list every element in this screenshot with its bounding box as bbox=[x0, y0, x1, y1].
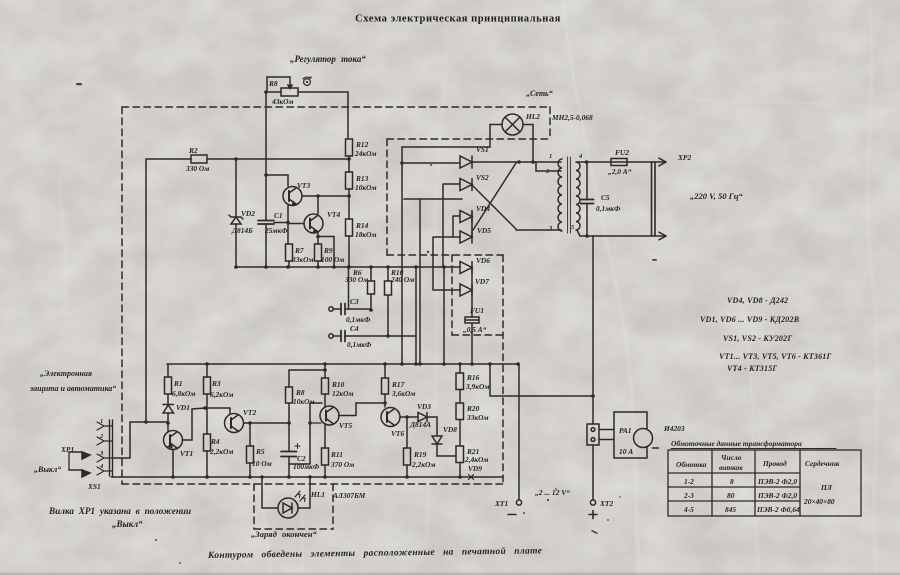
capacitor C2 electrolytic bbox=[281, 423, 300, 477]
wire: VD2 branch x=236 bbox=[235, 159, 237, 267]
knob rotation symbol bbox=[303, 76, 312, 85]
svg-text:4-5: 4-5 bbox=[683, 505, 694, 514]
diode VD6 bbox=[460, 262, 472, 274]
plug XP1 arrows bbox=[69, 452, 90, 477]
svg-text:2-3: 2-3 bbox=[683, 491, 694, 500]
svg-text:2,4кОм: 2,4кОм bbox=[464, 455, 488, 464]
svg-text:R4: R4 bbox=[210, 437, 220, 446]
diode VD1 bbox=[163, 405, 174, 423]
connector XS1 socket bbox=[97, 420, 113, 476]
svg-text:„Выкл“: „Выкл“ bbox=[112, 519, 143, 529]
svg-text:2,2кОм: 2,2кОм bbox=[209, 447, 233, 456]
notes block bbox=[700, 296, 832, 373]
svg-text:100 Ом: 100 Ом bbox=[321, 255, 344, 264]
svg-text:18кОм: 18кОм bbox=[355, 230, 377, 239]
svg-text:ПЭВ-2 Ф2,0: ПЭВ-2 Ф2,0 bbox=[757, 491, 797, 500]
svg-text:VD4, VD8 - Д242: VD4, VD8 - Д242 bbox=[727, 296, 788, 305]
resistor R7 bbox=[286, 244, 293, 267]
svg-text:FU2: FU2 bbox=[615, 148, 629, 157]
potentiometer R8 (current regulator) bbox=[266, 77, 348, 96]
svg-text:FU1: FU1 bbox=[470, 306, 484, 315]
svg-text:10кОм: 10кОм bbox=[355, 183, 377, 192]
svg-text:VD1: VD1 bbox=[176, 403, 190, 412]
svg-text:R2: R2 bbox=[188, 146, 198, 155]
LED HL1 bbox=[262, 477, 310, 518]
svg-text:VD1, VD6 ... VD9 - КД202В: VD1, VD6 ... VD9 - КД202В bbox=[700, 315, 800, 324]
svg-text:R16: R16 bbox=[466, 373, 480, 382]
svg-text:R5: R5 bbox=[255, 447, 265, 456]
svg-text:80: 80 bbox=[727, 491, 735, 500]
resistor R11 bbox=[322, 448, 329, 477]
svg-text:R17: R17 bbox=[391, 380, 405, 389]
dashed enclosure: electronic protection block bbox=[122, 107, 550, 484]
svg-text:VT4: VT4 bbox=[327, 210, 340, 219]
wire: regulator left drop x=266 bbox=[265, 92, 267, 175]
wire: R8 right drop to chain bbox=[347, 92, 349, 139]
terminal XT1 bbox=[516, 500, 521, 505]
transistor VT5 bbox=[310, 403, 385, 448]
svg-text:R8: R8 bbox=[268, 79, 278, 88]
mark x on rail bbox=[469, 475, 474, 480]
svg-text:„Электронная: „Электронная bbox=[40, 369, 92, 378]
paper specks bbox=[76, 83, 657, 564]
svg-text:25мкФ: 25мкФ bbox=[264, 226, 288, 235]
svg-text:VT6: VT6 bbox=[391, 429, 404, 438]
svg-text:Схема электрическая принципиал: Схема электрическая принципиальная bbox=[355, 14, 561, 25]
svg-text:0,1мкФ: 0,1мкФ bbox=[346, 315, 371, 324]
ammeter PA1 bbox=[587, 412, 659, 458]
bridge right side: top rail to transformer pin1 bbox=[472, 161, 561, 163]
svg-text:ХТ2: ХТ2 bbox=[599, 499, 613, 508]
svg-text:370 Ом: 370 Ом bbox=[330, 460, 354, 469]
svg-text:R19: R19 bbox=[413, 450, 427, 459]
svg-text:1-2: 1-2 bbox=[684, 477, 694, 486]
resistor R1 bbox=[165, 364, 172, 404]
diode VD7 bbox=[460, 284, 472, 296]
svg-text:330 Ом: 330 Ом bbox=[185, 164, 209, 173]
resistor chain R12 R13 R14 bbox=[346, 139, 353, 309]
svg-text:VT1: VT1 bbox=[180, 449, 193, 458]
svg-text:240 Ом: 240 Ом bbox=[390, 275, 414, 284]
wire: left rail x=146 bbox=[145, 159, 147, 422]
resistor R8 lower bbox=[286, 370, 326, 423]
svg-text:Д814А: Д814А bbox=[409, 420, 431, 429]
svg-text:VT2: VT2 bbox=[243, 408, 256, 417]
output circuit: fuse FU2, C5, plug XP2 bbox=[577, 161, 666, 163]
svg-text:„Заряд окончен“: „Заряд окончен“ bbox=[251, 529, 317, 539]
diode VD3 bbox=[418, 413, 437, 422]
svg-text:20×40×80: 20×40×80 bbox=[803, 497, 835, 506]
wire: meter feed bbox=[490, 364, 593, 396]
svg-text:VD4: VD4 bbox=[476, 204, 490, 213]
svg-text:„2,0 А“: „2,0 А“ bbox=[608, 167, 632, 176]
wire: pin2 lead bbox=[536, 162, 561, 171]
transformer T1 windings bbox=[558, 157, 580, 233]
resistor R20 bbox=[456, 403, 464, 446]
resistor R10 bbox=[385, 267, 392, 336]
svg-text:330 Ом: 330 Ом bbox=[344, 275, 368, 284]
svg-text:R12: R12 bbox=[355, 140, 369, 149]
svg-text:Вилка ХР1 указана в положе: Вилка ХР1 указана в положении bbox=[48, 506, 191, 516]
transistor VT4 bbox=[288, 196, 334, 267]
svg-text:C5: C5 bbox=[601, 193, 610, 202]
crossing wires to transformer bbox=[473, 186, 516, 229]
wire: mid rail y=267 bbox=[236, 266, 444, 268]
wire: pin3 to VT1 base bbox=[113, 422, 147, 458]
resistor R21 bbox=[456, 446, 464, 477]
bridge left feed wires bbox=[402, 146, 490, 148]
svg-text:VS2: VS2 bbox=[476, 173, 489, 182]
svg-text:„Выкл“: „Выкл“ bbox=[34, 465, 61, 474]
dashed box: HL1 indicator bbox=[254, 484, 333, 529]
svg-text:VD5: VD5 bbox=[477, 226, 491, 235]
svg-text:R11: R11 bbox=[330, 450, 343, 459]
wire: C4 drop x=416 bbox=[415, 267, 417, 364]
svg-text:АЛ307БМ: АЛ307БМ bbox=[332, 491, 366, 500]
wire: XT1 drop bbox=[518, 364, 519, 500]
svg-text:VD2: VD2 bbox=[241, 209, 255, 218]
resistor R10 lower bbox=[322, 364, 329, 407]
diode VD8 bbox=[432, 417, 456, 456]
wire: lower bottom rail y=477 bbox=[111, 476, 503, 478]
svg-text:R3: R3 bbox=[211, 379, 221, 388]
wire: VT5 base link x=310 bbox=[289, 403, 322, 464]
svg-text:R10: R10 bbox=[331, 380, 345, 389]
svg-text:C4: C4 bbox=[350, 324, 359, 333]
svg-text:ХР2: ХР2 bbox=[677, 153, 691, 162]
svg-text:Д814Б: Д814Б bbox=[231, 226, 253, 235]
svg-text:ПЭВ-2 Ф2,0: ПЭВ-2 Ф2,0 bbox=[757, 477, 797, 486]
svg-text:845: 845 bbox=[725, 505, 736, 514]
svg-text:3,6кОм: 3,6кОм bbox=[391, 389, 415, 398]
connector XP2 double bars bbox=[652, 162, 656, 236]
svg-text:2,2кОм: 2,2кОм bbox=[411, 460, 435, 469]
svg-text:Обмоточные данные трансформа: Обмоточные данные трансформатора bbox=[671, 439, 802, 448]
thyristor VS1 bbox=[460, 156, 472, 168]
svg-text:1: 1 bbox=[549, 153, 552, 160]
INK bbox=[69, 76, 861, 529]
svg-text:VT5: VT5 bbox=[339, 421, 352, 430]
resistor R3 bbox=[204, 364, 211, 408]
svg-text:8: 8 bbox=[730, 477, 734, 486]
svg-text:3,9кОм: 3,9кОм bbox=[465, 382, 489, 391]
resistor R5 bbox=[247, 423, 254, 477]
dashed box: rectifier bridge on PCB bbox=[387, 139, 503, 335]
resistor R19 bbox=[404, 448, 411, 477]
capacitor C5 bbox=[581, 162, 594, 236]
svg-text:HL1: HL1 bbox=[310, 490, 325, 499]
winding table grid bbox=[668, 449, 861, 517]
svg-text:12кОм: 12кОм bbox=[332, 389, 354, 398]
svg-text:VD8: VD8 bbox=[443, 425, 457, 434]
svg-text:R9: R9 bbox=[323, 246, 333, 255]
svg-text:HL2: HL2 bbox=[525, 112, 540, 121]
svg-text:„2 ... 12 V“: „2 ... 12 V“ bbox=[535, 488, 570, 497]
svg-text:VD9: VD9 bbox=[468, 464, 482, 473]
svg-text:ХТ1: ХТ1 bbox=[494, 499, 508, 508]
svg-text:10 Ом: 10 Ом bbox=[252, 459, 272, 468]
svg-text:6,2кОм: 6,2кОм bbox=[210, 390, 233, 399]
transistor VT2 bbox=[207, 408, 289, 433]
svg-text:6,8кОм: 6,8кОм bbox=[172, 389, 195, 398]
svg-text:VS1, VS2 - КУ202Г: VS1, VS2 - КУ202Г bbox=[723, 334, 792, 343]
svg-text:XS1: XS1 bbox=[87, 482, 101, 491]
resistor R16 bbox=[456, 364, 464, 403]
svg-text:Сердечник: Сердечник bbox=[805, 459, 840, 468]
svg-text:43кОм: 43кОм bbox=[271, 97, 294, 106]
svg-text:10кОм: 10кОм bbox=[293, 397, 315, 406]
svg-text:10 А: 10 А bbox=[619, 447, 633, 456]
svg-text:ХР1: ХР1 bbox=[60, 445, 74, 454]
resistor R2 bbox=[146, 155, 349, 163]
svg-text:C3: C3 bbox=[350, 297, 359, 306]
svg-text:33кОм: 33кОм bbox=[466, 413, 489, 422]
svg-text:33кОм: 33кОм bbox=[291, 255, 314, 264]
transistor VT1 bbox=[146, 408, 205, 477]
transformer pin numbers bbox=[545, 153, 583, 232]
svg-text:C1: C1 bbox=[274, 211, 283, 220]
svg-text:защита и автоматика“: защита и автоматика“ bbox=[29, 384, 116, 393]
capacitor C3 bbox=[329, 304, 371, 315]
wire: lower top rail y=364 bbox=[167, 363, 518, 365]
svg-text:24кОм: 24кОм bbox=[354, 149, 377, 158]
svg-text:Провод: Провод bbox=[762, 459, 787, 468]
capacitor C4 bbox=[329, 331, 416, 342]
svg-text:1: 1 bbox=[100, 418, 103, 425]
svg-text:VD7: VD7 bbox=[475, 277, 489, 286]
svg-text:R7: R7 bbox=[294, 246, 304, 255]
svg-text:VT3: VT3 bbox=[297, 181, 310, 190]
svg-text:МН2,5-0,068: МН2,5-0,068 bbox=[551, 113, 593, 122]
diode VD4 bbox=[460, 211, 472, 223]
svg-text:VT1... VT3, VT5, VT6 - КТ361Г: VT1... VT3, VT5, VT6 - КТ361Г bbox=[719, 352, 832, 361]
svg-text:R13: R13 bbox=[355, 174, 369, 183]
svg-text:100мкФ: 100мкФ bbox=[293, 462, 320, 471]
transistor VT6 bbox=[381, 408, 418, 449]
fuse FU1 bbox=[465, 267, 479, 364]
svg-text:R14: R14 bbox=[355, 221, 369, 230]
thyristor VS2 bbox=[460, 179, 472, 191]
diode VD5 bbox=[460, 231, 472, 243]
svg-text:0,1мкФ: 0,1мкФ bbox=[347, 340, 372, 349]
svg-text:VD6: VD6 bbox=[476, 256, 490, 265]
svg-text:R8: R8 bbox=[295, 388, 305, 397]
svg-text:ПЭВ-2 Ф0,64: ПЭВ-2 Ф0,64 bbox=[756, 505, 800, 514]
svg-text:0,1мкФ: 0,1мкФ bbox=[596, 204, 621, 213]
resistor R6 bbox=[368, 267, 375, 310]
svg-text:„220 V, 50 Гц“: „220 V, 50 Гц“ bbox=[690, 191, 743, 201]
svg-text:VS1: VS1 bbox=[476, 145, 489, 154]
dashed box: lamp HL2 bbox=[387, 107, 550, 139]
resistor R9 bbox=[315, 244, 322, 267]
lamp HL2 bbox=[490, 114, 533, 160]
svg-text:И4203: И4203 bbox=[663, 424, 685, 433]
resistor R4 bbox=[204, 408, 211, 477]
zener VD2 bbox=[229, 215, 243, 224]
pin numbers XS1 bbox=[99, 418, 104, 470]
svg-text:VD3: VD3 bbox=[417, 402, 431, 411]
svg-text:витков: витков bbox=[719, 463, 743, 472]
svg-text:„0,5 А“: „0,5 А“ bbox=[463, 325, 487, 334]
svg-text:Число: Число bbox=[721, 453, 742, 462]
svg-text:R1: R1 bbox=[173, 379, 183, 388]
svg-text:ПЛ: ПЛ bbox=[820, 483, 833, 492]
resistor R17 bbox=[382, 364, 389, 407]
svg-text:R20: R20 bbox=[466, 404, 480, 413]
capacitor C1 bbox=[258, 175, 288, 267]
svg-text:„Регулятор тока“: „Регулятор тока“ bbox=[290, 54, 366, 64]
wire: XT2 drop bbox=[592, 236, 594, 500]
svg-text:„Сеть“: „Сеть“ bbox=[526, 89, 553, 98]
svg-text:РА1: РА1 bbox=[619, 426, 632, 435]
svg-text:Обмотка: Обмотка bbox=[676, 460, 707, 469]
svg-text:VT4 - КТ315Г: VT4 - КТ315Г bbox=[727, 364, 777, 373]
transistor VT3 bbox=[266, 175, 349, 244]
terminal XT2 bbox=[590, 500, 595, 505]
wire: bridge output drop x=444 bbox=[443, 267, 445, 364]
